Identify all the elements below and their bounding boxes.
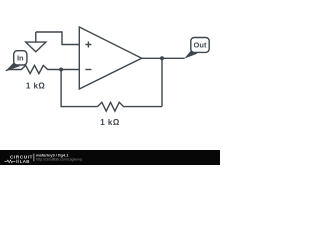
ground: [26, 32, 46, 52]
wire feedback left: [61, 70, 97, 107]
svg-text:LAB: LAB: [20, 159, 30, 164]
op-amp - pin mark: [85, 69, 91, 71]
footer CircuitLab logo: [5, 155, 33, 165]
footer separator bar: [32, 154, 35, 162]
resistor R1: [6, 65, 61, 73]
svg-text:1 kΩ: 1 kΩ: [100, 118, 120, 127]
resistor R2: [98, 102, 163, 111]
svg-text:1 kΩ: 1 kΩ: [26, 81, 46, 90]
node A junction dot: [59, 68, 63, 72]
svg-text:Out: Out: [194, 41, 207, 50]
flag Out: [184, 38, 209, 59]
wire node A to op-amp - input: [61, 69, 79, 71]
footer bar: [0, 150, 220, 165]
op-amp + pin mark: [85, 42, 91, 48]
wire feedback right: [161, 58, 163, 106]
node Out junction dot: [160, 56, 164, 60]
op-amp U1: [79, 27, 141, 89]
svg-text:http://circuitlab.com/csgwxvq: http://circuitlab.com/csgwxvq: [36, 157, 82, 161]
wire output: [142, 57, 185, 59]
flag In: [6, 51, 27, 71]
svg-text:In: In: [17, 53, 24, 62]
wire ground to op-amp + input: [36, 32, 80, 45]
